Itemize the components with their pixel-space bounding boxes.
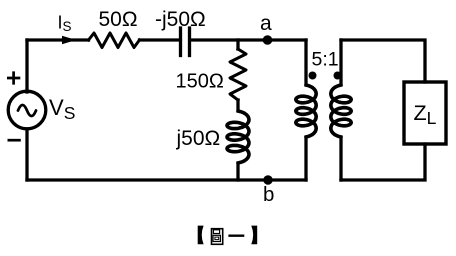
resistor 50ohm [89, 33, 140, 48]
wire source top vertical [25, 40, 28, 92]
source sine symbol [18, 105, 36, 116]
svg-text:a: a [260, 12, 272, 35]
transformer secondary phase dot [334, 72, 342, 80]
source plus polarity [7, 71, 20, 84]
wire top rail left segment [27, 38, 89, 41]
transformer primary bottom stem [304, 137, 307, 180]
svg-text:50Ω: 50Ω [99, 8, 138, 31]
inductor j50ohm coil [227, 111, 249, 163]
caption figure-1 right bracket [251, 226, 257, 245]
wire source bottom vertical [25, 130, 28, 180]
capacitor -j50ohm left plate [179, 28, 182, 56]
node b junction dot [263, 175, 272, 184]
source circle VS [8, 91, 46, 129]
svg-text:VS: VS [49, 95, 75, 123]
node a junction dot [263, 35, 273, 45]
wire resistor to capacitor [140, 38, 180, 41]
current arrow IS [62, 36, 76, 45]
wire load bottom to secondary [341, 144, 425, 180]
transformer primary winding coil [296, 85, 316, 137]
transformer primary top stem [304, 40, 307, 85]
svg-text:b: b [263, 183, 274, 206]
source minus polarity [8, 139, 21, 142]
transformer secondary winding coil [331, 85, 351, 137]
load box ZL [404, 82, 446, 144]
caption figure-1 character yi (one) [228, 235, 244, 237]
svg-text:ZL: ZL [414, 101, 437, 128]
capacitor -j50ohm right plate [188, 28, 191, 56]
transformer secondary bottom stem [339, 137, 342, 180]
svg-text:150Ω: 150Ω [176, 71, 224, 93]
wire resistor to inductor [236, 100, 239, 111]
wire inductor bottom lead [236, 163, 239, 180]
transformer primary phase dot [309, 72, 317, 80]
wire secondary top rail to load [341, 40, 425, 82]
svg-text:-j50Ω: -j50Ω [155, 8, 206, 31]
wire 150ohm branch top lead [236, 40, 239, 49]
svg-text:5:1: 5:1 [312, 48, 339, 70]
transformer secondary top stem [339, 40, 342, 85]
caption figure-1 left bracket [198, 226, 204, 245]
caption figure-1 character tu (picture) [212, 229, 223, 245]
wire bottom rail left [27, 178, 306, 181]
svg-text:IS: IS [58, 13, 72, 35]
resistor 150ohm vertical [230, 49, 246, 100]
svg-text:j50Ω: j50Ω [176, 127, 221, 150]
wire capacitor to primary [191, 38, 306, 41]
